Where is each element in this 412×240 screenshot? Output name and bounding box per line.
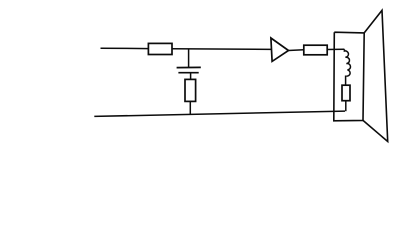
capacitor C1 <box>177 67 201 72</box>
wire <box>188 49 190 68</box>
resistor R1 <box>148 43 172 54</box>
wire <box>189 101 191 114</box>
wire <box>190 73 192 80</box>
wire <box>101 47 150 49</box>
inductor L1 <box>344 49 350 76</box>
wire <box>327 48 344 50</box>
resistor R3 <box>304 45 327 55</box>
resistor R4 <box>342 85 350 101</box>
wire <box>94 111 345 116</box>
wire <box>288 49 303 52</box>
speaker frame <box>334 32 364 121</box>
speaker cone <box>363 10 388 141</box>
op-amp A1 <box>271 38 289 61</box>
wire <box>345 101 347 112</box>
wire <box>172 48 271 51</box>
wire <box>345 76 347 86</box>
resistor R2 <box>185 79 196 101</box>
